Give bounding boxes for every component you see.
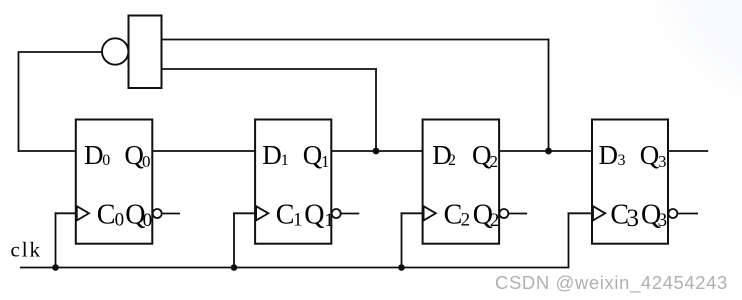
label Q2-bar bbox=[473, 200, 500, 232]
svg-text:Q: Q bbox=[303, 140, 323, 170]
svg-text:1: 1 bbox=[293, 209, 303, 230]
svg-text:3: 3 bbox=[658, 152, 667, 171]
svg-text:2: 2 bbox=[490, 210, 500, 231]
gate G1 body (IEC rectangle) bbox=[129, 16, 162, 89]
svg-text:clk: clk bbox=[11, 238, 42, 262]
gate G1 inversion bubble bbox=[102, 38, 128, 64]
label D0 bbox=[84, 140, 110, 170]
wire: gate input B horizontal (lower, from Q1 tap) bbox=[162, 68, 377, 70]
clock triangle U4 bbox=[593, 206, 605, 220]
svg-text:0: 0 bbox=[102, 152, 110, 169]
svg-text:Q: Q bbox=[304, 200, 324, 231]
wire: clk riser to C2 bbox=[401, 212, 424, 268]
svg-text:3: 3 bbox=[658, 210, 668, 231]
svg-text:2: 2 bbox=[490, 152, 499, 171]
wire: gate input B vertical at x=376 bbox=[375, 68, 377, 151]
label C2 bbox=[444, 200, 471, 231]
wire: feedback vertical down left side bbox=[18, 51, 20, 152]
wire: Q3-bar stub bbox=[677, 213, 698, 215]
wire: clk riser to C3 (bus end corner) bbox=[568, 212, 593, 268]
svg-text:0: 0 bbox=[115, 209, 125, 230]
label D2 bbox=[432, 140, 456, 170]
flip-flop U3 box bbox=[423, 120, 500, 244]
label C3 bbox=[610, 200, 639, 232]
wire: clk riser to C1 bbox=[233, 212, 256, 268]
flip-flop U2 box bbox=[255, 120, 331, 244]
svg-text:CSDN @weixin_42454243: CSDN @weixin_42454243 bbox=[495, 272, 728, 294]
wire: Q2 to D3 bbox=[499, 150, 592, 152]
wire: Q1-bar stub bbox=[341, 213, 360, 215]
label Q0 bbox=[124, 140, 150, 171]
svg-text:3: 3 bbox=[627, 205, 640, 232]
label Q0-bar bbox=[125, 200, 152, 232]
wire: Q2-bar stub bbox=[508, 213, 527, 215]
label Q1 bbox=[303, 140, 330, 171]
junction dot clk-C1 bbox=[231, 264, 238, 271]
wire: Q0 to D1 bbox=[152, 150, 255, 152]
wire: gate input A vertical at x=548.5 bbox=[548, 39, 550, 151]
clock triangle U1 bbox=[77, 206, 89, 220]
wire: feedback into D0 input bbox=[18, 150, 77, 152]
label Q3 bbox=[640, 140, 667, 171]
junction dot clk-C2 bbox=[398, 264, 405, 271]
svg-text:1: 1 bbox=[324, 210, 334, 231]
label C0 bbox=[97, 200, 124, 231]
svg-text:0: 0 bbox=[143, 210, 153, 231]
svg-text:D: D bbox=[84, 140, 104, 170]
label D1 bbox=[262, 140, 289, 170]
inverted output bubble U1 bbox=[153, 209, 162, 218]
junction dot clk-C0 bbox=[52, 264, 59, 271]
flip-flop U1 box bbox=[76, 120, 153, 244]
label C1 bbox=[276, 200, 303, 231]
wire: gate output from bubble left to feedback corner bbox=[19, 51, 102, 53]
label Q1-bar bbox=[304, 200, 334, 232]
clock triangle U3 bbox=[424, 206, 436, 220]
svg-text:C: C bbox=[444, 200, 463, 231]
inverted output bubble U3 bbox=[499, 209, 508, 218]
svg-text:2: 2 bbox=[461, 209, 471, 230]
svg-text:0: 0 bbox=[142, 152, 151, 171]
wire: Q3 output bbox=[668, 150, 708, 152]
junction dot on Q1-D2 wire bbox=[373, 148, 380, 155]
wire: Q1 to D2 bbox=[331, 150, 422, 152]
label Q3-bar bbox=[641, 200, 667, 232]
svg-text:2: 2 bbox=[448, 152, 456, 169]
svg-text:D: D bbox=[262, 140, 282, 170]
svg-text:C: C bbox=[276, 200, 295, 231]
watermark CSDN bbox=[495, 272, 729, 295]
wire: Q0-bar stub bbox=[162, 213, 180, 215]
inverted output bubble U4 bbox=[668, 209, 677, 218]
label clk bbox=[11, 238, 42, 262]
flip-flop U4 box bbox=[592, 120, 668, 244]
junction dot on Q2-D3 wire bbox=[545, 148, 552, 155]
svg-text:C: C bbox=[97, 200, 116, 231]
wire: clk riser to C0 bbox=[55, 212, 77, 268]
svg-text:D: D bbox=[599, 140, 619, 170]
label Q2 bbox=[472, 140, 498, 171]
svg-text:3: 3 bbox=[618, 152, 626, 169]
svg-text:1: 1 bbox=[321, 152, 330, 171]
inverted output bubble U2 bbox=[332, 209, 341, 218]
clock triangle U2 bbox=[256, 206, 268, 220]
wire: gate input A horizontal (top, from Q2 tap) bbox=[162, 39, 550, 41]
svg-text:Q: Q bbox=[640, 140, 660, 170]
svg-text:1: 1 bbox=[281, 152, 289, 169]
label D3 bbox=[599, 140, 626, 170]
wire: clk bus horizontal bbox=[20, 267, 569, 269]
